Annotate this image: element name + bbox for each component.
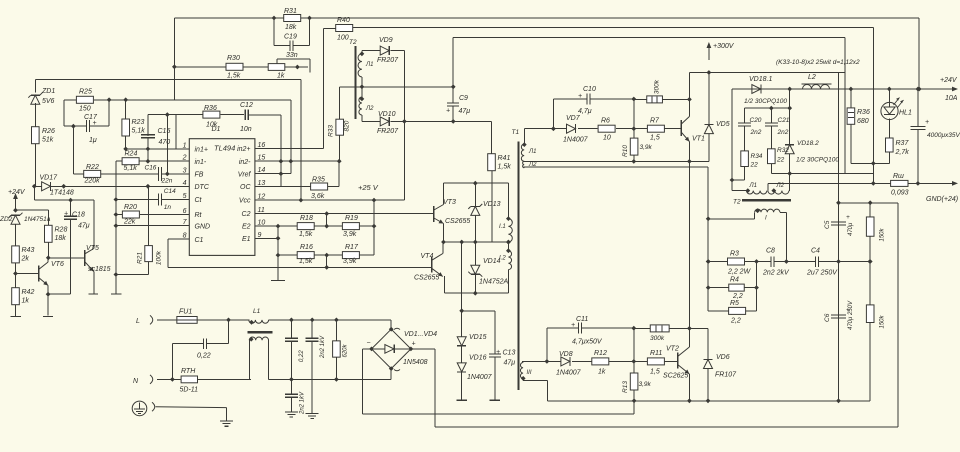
svg-text:R18: R18 <box>300 215 313 222</box>
wire I2 bottom leg <box>507 270 509 294</box>
svg-text:ZD1: ZD1 <box>41 88 55 95</box>
diode VD9 <box>380 46 389 55</box>
resistor R22 <box>84 170 101 177</box>
node pin15 row <box>279 159 342 164</box>
wire R32 bottom leg <box>771 164 845 174</box>
wire VT4 collector leg <box>442 242 444 254</box>
svg-text:C16: C16 <box>145 165 157 172</box>
wire VT3 collector rail <box>444 182 509 184</box>
svg-text:C5: C5 <box>824 220 831 229</box>
arrow +300V <box>707 42 712 48</box>
arrow +24V output <box>952 87 958 92</box>
bridge rectifier VD1...VD4 <box>391 329 411 349</box>
resistor R19 <box>342 223 359 230</box>
svg-text:150k: 150k <box>880 227 886 241</box>
svg-text:C21: C21 <box>778 117 790 124</box>
svg-text:+: + <box>412 341 416 348</box>
diode VD6 <box>704 360 713 369</box>
wire top rail 3 from C9 <box>453 37 845 39</box>
wire R25 row <box>64 99 291 101</box>
wire VT5 base row <box>48 257 85 259</box>
node R31 right <box>307 16 312 21</box>
node C18 top <box>68 198 73 203</box>
wire VT4 emitter leg <box>443 276 445 293</box>
resistor 150k lower <box>866 305 874 323</box>
wire VD18.1 anode leg <box>732 89 752 191</box>
svg-text:VD14: VD14 <box>483 258 501 265</box>
wire bridge top leg <box>390 320 392 329</box>
svg-text:1n: 1n <box>164 204 172 211</box>
svg-text:I.2: I.2 <box>499 256 506 262</box>
svg-text:L: L <box>136 318 140 325</box>
svg-text:R42: R42 <box>22 289 35 296</box>
fusible resistor 300k lower <box>650 325 669 332</box>
wire R10 top leg <box>633 129 635 138</box>
node R24 right <box>146 159 151 164</box>
svg-text:in1-: in1- <box>195 159 207 166</box>
svg-text:ZD2: ZD2 <box>0 216 13 223</box>
wire R21 bottom leg <box>116 261 149 274</box>
svg-text:1N5408: 1N5408 <box>403 359 428 366</box>
wire primary common rail <box>547 400 870 402</box>
wire R33 top leg <box>339 87 341 119</box>
node shunt rail <box>916 181 921 186</box>
svg-text:1N4007: 1N4007 <box>556 370 582 377</box>
wire center tap to C9 <box>362 86 453 88</box>
wire +24V control branch <box>34 186 94 200</box>
fuse FU1 <box>177 317 197 324</box>
node VT6 emitter <box>46 292 51 297</box>
svg-text:VD15: VD15 <box>469 334 487 341</box>
svg-text:CS2655: CS2655 <box>445 218 470 225</box>
node III bottom <box>521 376 526 381</box>
diode VD18.1 <box>752 85 761 94</box>
svg-text:VD7: VD7 <box>566 115 581 122</box>
node L2 start <box>360 97 365 102</box>
svg-text:2k: 2k <box>21 256 30 263</box>
svg-text:DTC: DTC <box>195 184 210 191</box>
transistor VT3 <box>434 205 444 224</box>
svg-text:R13: R13 <box>622 381 629 393</box>
ground earth symbol mid <box>306 413 319 418</box>
svg-text:R43: R43 <box>22 247 35 254</box>
wire in1- sense rail y79.6 <box>35 79 301 81</box>
terminal bar VT5 <box>89 293 99 295</box>
node 150k mid <box>868 259 873 264</box>
svg-text:E2: E2 <box>242 224 251 231</box>
svg-text:150k: 150k <box>880 314 886 328</box>
terminal bar of trimmer <box>309 62 311 73</box>
svg-text:4,7μx50V: 4,7μx50V <box>572 339 603 346</box>
zener diode ZD2 <box>9 213 23 225</box>
svg-text:2,2: 2,2 <box>732 293 743 300</box>
wire C19 row <box>274 45 310 47</box>
transformer T1 winding I.1 <box>508 219 512 242</box>
wire R37 bottom leg <box>888 152 890 163</box>
transistor VT1 <box>681 117 689 142</box>
node C9 top <box>451 84 456 89</box>
transformer T1 winding II.1 <box>521 144 524 161</box>
svg-text:C2: C2 <box>242 211 251 218</box>
svg-text:R6: R6 <box>601 118 610 125</box>
svg-text:L2: L2 <box>808 74 816 81</box>
wire VD10 out row <box>390 120 491 122</box>
svg-text:2n2 1kV: 2n2 1kV <box>300 391 306 415</box>
wire pin15 row <box>255 160 339 162</box>
capacitor C12 <box>245 110 248 121</box>
node ZD2 top <box>13 208 18 213</box>
node VT6 base <box>13 271 18 276</box>
wire VT5 emitter <box>93 272 95 295</box>
wire minus jog up <box>633 401 635 414</box>
wire GND row pin7 <box>116 225 189 227</box>
svg-text:E1: E1 <box>242 236 251 243</box>
svg-text:C20: C20 <box>750 117 762 124</box>
wire VD6 top row <box>689 328 708 359</box>
led HL1 <box>881 102 898 119</box>
node N row xcap <box>289 377 339 382</box>
wire C16-R36row link <box>166 115 168 174</box>
svg-text:2u7 250V: 2u7 250V <box>806 270 838 277</box>
svg-text:R37: R37 <box>896 140 910 147</box>
wire VD15-VD16 <box>461 346 463 363</box>
svg-text:14: 14 <box>258 167 266 174</box>
svg-text:OC: OC <box>240 184 251 191</box>
resistor R16 <box>297 252 314 259</box>
wire T2 center tap <box>361 77 363 97</box>
svg-text:VD5: VD5 <box>716 121 730 128</box>
svg-text:R28: R28 <box>55 227 68 234</box>
wire bridge plus <box>411 349 898 427</box>
wire 620k top leg <box>335 320 337 341</box>
node VD15 top row <box>459 308 464 313</box>
resistor R40 <box>336 25 353 32</box>
svg-text:0,22: 0,22 <box>299 350 305 362</box>
wire 4000u legs <box>917 89 919 183</box>
terminal bar C13 <box>490 399 500 401</box>
resistor R35 <box>311 183 328 190</box>
svg-text:+: + <box>496 349 500 356</box>
capacitor C14 <box>159 194 162 206</box>
svg-text:51k: 51k <box>42 137 54 144</box>
wire C13 top row <box>462 311 495 354</box>
wire main winding left leg <box>708 212 755 219</box>
node R12-R11 <box>631 359 636 364</box>
svg-text:820: 820 <box>344 120 351 131</box>
svg-text:III: III <box>527 370 532 376</box>
node VD18.2 bottom <box>787 171 792 176</box>
wire R5 row <box>708 262 756 311</box>
svg-text:R12: R12 <box>594 350 607 357</box>
resistor R43 <box>12 246 20 263</box>
svg-text:C4: C4 <box>811 248 820 255</box>
svg-text:47μ: 47μ <box>459 108 471 115</box>
inductor L1 upper winding <box>249 320 269 323</box>
svg-text:Л1: Л1 <box>528 149 536 155</box>
arrow GND output <box>952 181 958 186</box>
node center tap <box>360 84 365 89</box>
svg-text:D1: D1 <box>212 126 221 133</box>
resistor R25 <box>76 96 93 103</box>
node snubber top <box>769 106 792 111</box>
resistor R31 <box>284 15 301 22</box>
capacitor C9 <box>447 103 459 106</box>
svg-text:GND(+24): GND(+24) <box>926 196 958 203</box>
node trimmer output <box>295 65 300 70</box>
diode VD17 <box>42 182 51 191</box>
node R4 row <box>754 285 759 290</box>
wire secondary low rail <box>523 166 708 168</box>
resistor R23 <box>122 119 130 136</box>
node L1 start <box>360 51 365 56</box>
svg-text:R7: R7 <box>650 118 660 125</box>
svg-text:VT6: VT6 <box>51 261 64 268</box>
wire L1 lower right leg <box>269 340 392 379</box>
wire left vertical x174 <box>173 18 175 100</box>
wire I1-I2 link <box>507 242 509 251</box>
svg-text:220k: 220k <box>84 178 101 185</box>
svg-text:4,7μ: 4,7μ <box>578 108 592 115</box>
wire VD18.2 top leg <box>789 108 791 145</box>
wire output gnd rail <box>768 182 873 184</box>
wire III top leg <box>522 361 523 362</box>
wire E2 row <box>255 225 374 227</box>
svg-text:R5: R5 <box>730 300 739 307</box>
wire R34 bottom leg <box>732 167 745 181</box>
wire driver bottom rail <box>444 292 508 294</box>
wire VT1 top leg <box>688 73 690 100</box>
svg-text:1N4007: 1N4007 <box>563 137 589 144</box>
wire pin1 row <box>126 148 190 150</box>
node DTC row <box>32 184 150 189</box>
svg-text:3: 3 <box>183 167 187 174</box>
svg-text:+24V: +24V <box>940 77 958 84</box>
resistor R34 <box>741 151 749 167</box>
svg-text:R16: R16 <box>300 244 313 251</box>
svg-text:1,5k: 1,5k <box>498 164 512 171</box>
wire d2 end riser <box>789 174 791 191</box>
svg-text:470μ 250V: 470μ 250V <box>848 300 854 330</box>
wire VD5 top leg <box>708 73 710 125</box>
wire Rt row <box>116 214 189 216</box>
capacitor C18 <box>64 216 77 219</box>
resistor R11 <box>647 358 664 365</box>
node N cap tap <box>170 377 175 382</box>
node I2 start <box>506 248 511 253</box>
wire wire2 drop right <box>872 28 874 184</box>
svg-text:VD6: VD6 <box>716 354 730 361</box>
svg-text:5,1k: 5,1k <box>132 128 146 135</box>
wire Xcap2 bottom leg <box>290 341 292 379</box>
svg-text:22: 22 <box>776 157 785 164</box>
node low rail drop <box>706 216 711 290</box>
svg-text:+: + <box>925 119 929 126</box>
resistor R30 <box>226 63 243 70</box>
svg-text:3,9k: 3,9k <box>640 144 653 151</box>
node d2 dot <box>771 188 776 193</box>
node Ct row <box>114 197 119 202</box>
wire C9 top leg <box>452 38 454 103</box>
diode VD5 <box>704 125 713 134</box>
wire VD15 column top <box>461 242 463 337</box>
svg-text:300k: 300k <box>654 79 661 94</box>
wire d-junction riser <box>767 183 769 190</box>
transformer T2 winding L1 <box>358 54 362 77</box>
ground bar control common <box>271 280 285 282</box>
svg-text:C18: C18 <box>72 212 85 219</box>
zener diode VD14 <box>468 265 482 277</box>
wire VT2 emitter leg <box>688 374 690 401</box>
svg-text:+: + <box>446 108 450 115</box>
node R6-R7 <box>631 126 636 131</box>
svg-text:R10: R10 <box>622 145 629 157</box>
inductor L1 lower winding <box>249 337 268 340</box>
trimmer wiper <box>276 59 278 63</box>
wire R22 row (FB) <box>73 173 189 175</box>
transformer T2out winding d2 <box>768 191 789 195</box>
svg-text:R36: R36 <box>857 109 870 116</box>
wire bridge bottom leg <box>390 369 392 380</box>
node VT1 collector <box>687 97 692 102</box>
wire C21-R32 <box>770 126 772 149</box>
svg-text:10A: 10A <box>945 95 958 102</box>
svg-text:3,9k: 3,9k <box>639 381 652 388</box>
svg-text:R19: R19 <box>345 215 358 222</box>
transformer T1 winding I.2 <box>508 251 511 270</box>
wire R23 top leg <box>125 100 127 119</box>
transformer T2 core <box>354 46 356 119</box>
svg-text:in2+: in2+ <box>237 146 250 153</box>
wire L row after choke <box>269 319 392 321</box>
transistor VT4 <box>432 254 443 277</box>
wire 150k column <box>869 203 871 401</box>
wire main winding right leg <box>780 212 787 261</box>
wire +24V sense top rail <box>174 17 919 19</box>
node L row <box>289 318 339 323</box>
node L cap tap <box>226 318 231 323</box>
svg-text:C13: C13 <box>503 350 516 357</box>
wire C21 top leg <box>770 108 772 123</box>
wire Ycap2 bottom leg <box>290 397 292 412</box>
svg-text:−: − <box>367 340 371 347</box>
node snubber left <box>730 178 735 183</box>
resistor R37 <box>886 138 894 152</box>
svg-text:C9: C9 <box>459 95 468 102</box>
node C16 right <box>165 172 170 177</box>
capacitor C5 <box>831 222 846 225</box>
svg-text:C6: C6 <box>824 313 831 322</box>
wire pin2 row <box>138 160 189 162</box>
capacitor C15 <box>141 135 155 138</box>
svg-text:R34: R34 <box>751 153 763 160</box>
node output rail <box>787 87 921 92</box>
svg-text:5V6: 5V6 <box>42 98 55 105</box>
svg-text:8: 8 <box>183 233 187 240</box>
svg-text:+: + <box>846 214 850 221</box>
node d1 dot <box>745 188 750 193</box>
wire VT5 collector <box>93 200 95 248</box>
svg-text:5,1k: 5,1k <box>124 165 138 172</box>
svg-text:Т2: Т2 <box>349 39 357 46</box>
svg-text:1,5k: 1,5k <box>299 258 313 265</box>
svg-text:150: 150 <box>79 106 91 113</box>
wire C2 row to VT3 base <box>255 213 434 215</box>
svg-text:R32: R32 <box>777 147 789 154</box>
node VD14 bottom <box>473 291 478 296</box>
svg-text:C19: C19 <box>284 34 297 41</box>
transistor VT5 <box>85 249 94 272</box>
wire snubber top rail <box>745 89 790 108</box>
svg-text:VD18.1: VD18.1 <box>749 76 772 83</box>
svg-text:RTH: RTH <box>181 368 196 375</box>
resistor R42 <box>12 288 20 305</box>
wire T2out top left leg <box>732 190 747 192</box>
node bridge corners <box>369 327 413 371</box>
wire Ct row <box>116 199 189 201</box>
svg-text:6: 6 <box>183 208 187 215</box>
transformer T1 core <box>517 142 519 391</box>
svg-text:300k: 300k <box>650 335 665 342</box>
capacitor Cy 2n2 upper <box>306 338 319 341</box>
wire R10 bottom leg <box>633 155 635 161</box>
wire R35 right leg <box>327 161 339 186</box>
ground PE symbol <box>220 421 233 426</box>
svg-text:1: 1 <box>183 142 187 149</box>
node I1-I2 junction <box>506 240 511 245</box>
capacitor 4000u output <box>910 126 925 129</box>
wire pin14 row <box>255 173 291 175</box>
wire Ycap1 bottom leg <box>311 341 313 413</box>
wire X-cap1 legs <box>172 320 228 380</box>
wire Ycap2 top leg <box>290 379 292 394</box>
wire top rail 2 from R40 <box>353 27 873 29</box>
wire VD8 row <box>522 360 678 362</box>
svg-text:1,5k: 1,5k <box>227 73 241 80</box>
wire R25row to Vref <box>290 100 292 174</box>
svg-text:C10: C10 <box>583 86 596 93</box>
svg-text:CS2655: CS2655 <box>414 275 439 282</box>
svg-text:3,9k: 3,9k <box>343 258 357 265</box>
node L1 lower dot <box>249 337 254 342</box>
svg-text:1,5: 1,5 <box>650 369 660 376</box>
transistor VT6 <box>39 262 49 286</box>
svg-text:VT4: VT4 <box>421 253 434 260</box>
resistor R10 <box>630 138 638 155</box>
svg-text:R33: R33 <box>328 125 335 137</box>
svg-text:1μ: 1μ <box>89 137 97 144</box>
node R31 left <box>272 16 277 21</box>
svg-text:R3: R3 <box>730 251 739 258</box>
wire R19-R17 column <box>373 200 375 255</box>
wire VT1-VT2 link <box>688 161 690 328</box>
capacitor Cx 0.22 second <box>285 338 298 341</box>
svg-text:1N4007: 1N4007 <box>467 374 493 381</box>
svg-text:VD8: VD8 <box>559 351 573 358</box>
node R18-R19 <box>324 224 329 229</box>
svg-text:VD16: VD16 <box>469 355 487 362</box>
wire R18R19 jog <box>326 214 328 227</box>
node pin1 row <box>123 147 150 152</box>
wire VD16 bottom leg <box>461 372 463 400</box>
wire VD7 row <box>525 128 682 130</box>
svg-text:1,5k: 1,5k <box>299 231 313 238</box>
wire R30 row <box>174 66 308 68</box>
node C11 right <box>631 326 636 331</box>
resistor R12 <box>592 358 609 365</box>
wire C10 left leg <box>552 99 554 129</box>
node I1 start <box>506 216 511 221</box>
wire secondary mid rail <box>523 160 709 162</box>
